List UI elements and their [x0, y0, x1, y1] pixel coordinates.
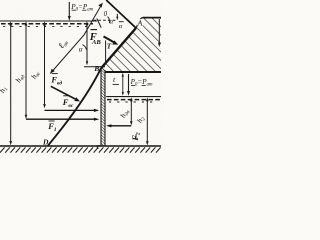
short segment near O — [97, 19, 101, 28]
force F_VC arrow — [45, 109, 96, 111]
p0 arrow left — [68, 2, 70, 18]
dimension h_vd — [25, 24, 27, 117]
dam body hatched region — [101, 0, 161, 72]
svg-text:В: В — [93, 64, 99, 73]
right edge dimension line — [158, 19, 160, 44]
force F1 arrow — [26, 118, 96, 120]
label A — [137, 19, 143, 26]
svg-text:D: D — [42, 138, 49, 147]
t dimension line — [122, 75, 124, 95]
right surface dashes — [107, 99, 161, 101]
vertical line from T — [105, 41, 107, 63]
dimension h2 — [146, 99, 148, 143]
left water surface — [0, 20, 97, 22]
dimension h1 — [10, 24, 12, 143]
force F2 arrow — [110, 125, 132, 127]
dimension h_d2 — [130, 99, 132, 123]
dam bottom edge — [105, 71, 161, 73]
force F_VD arrow — [51, 86, 76, 99]
svg-text:A: A — [137, 18, 143, 27]
dimension h_vc — [44, 24, 46, 107]
vertical wall BC — [101, 68, 105, 146]
ground line — [0, 145, 161, 147]
paper background — [0, 0, 161, 156]
ground hatching — [0, 147, 161, 152]
B level line — [84, 66, 105, 68]
small tick arrow at dashed end — [116, 14, 118, 18]
gate AB — [101, 28, 136, 68]
surface dashes row 2 — [3, 25, 90, 27]
notch rise at A — [136, 18, 143, 28]
dam crest — [143, 17, 161, 19]
angle alpha 2 — [119, 21, 124, 23]
svg-text:0: 0 — [104, 10, 108, 18]
l_AB dimension line — [50, 5, 101, 74]
surface dashes row 1 — [1, 23, 93, 25]
vertical line at angle alpha — [86, 24, 88, 63]
svg-text:АВ: АВ — [91, 39, 101, 46]
angle alpha near O — [108, 17, 110, 24]
svg-text:α: α — [110, 18, 114, 25]
svg-text:α: α — [119, 23, 123, 30]
svg-text:α: α — [79, 45, 83, 53]
inclined wall BD — [48, 68, 101, 146]
right water surface — [106, 96, 161, 98]
dam upstream top edge — [106, 0, 136, 28]
dashed horizontal at O — [94, 19, 118, 21]
force F_AB arrow — [104, 36, 114, 42]
p0 arrow right — [128, 74, 130, 93]
svg-text:T: T — [107, 42, 112, 50]
